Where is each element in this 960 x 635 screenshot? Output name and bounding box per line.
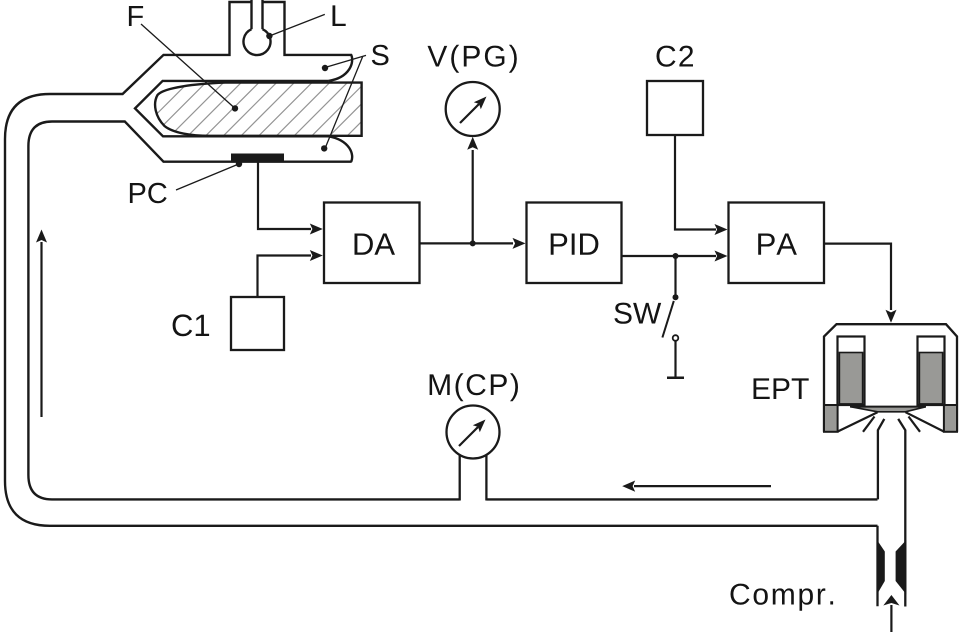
switch SW lower lead <box>674 341 676 377</box>
label F <box>129 6 143 26</box>
box C1 <box>231 297 284 350</box>
label SW <box>614 303 661 324</box>
EPT jet line left <box>863 417 875 432</box>
label L <box>333 5 346 26</box>
leader line F <box>141 24 235 108</box>
outlet pipe left wall lower segment <box>876 526 878 607</box>
label Compr. <box>731 584 834 611</box>
EPT nozzle flapper plate <box>851 407 926 412</box>
EPT left base block <box>824 405 838 432</box>
gauge V(PG) <box>446 82 500 136</box>
compressor inflow arrow <box>890 605 892 632</box>
gauge M(CP) tap stub right wall <box>485 455 487 501</box>
EPT right base block <box>944 405 957 432</box>
box PID <box>527 203 622 284</box>
label EPT <box>754 378 809 399</box>
wire PA to EPT <box>824 244 891 310</box>
label V(PG) <box>428 45 517 73</box>
outlet pipe right wall with flare <box>898 419 905 607</box>
flow arrow up in left pipe <box>40 242 42 417</box>
label PC <box>130 183 167 204</box>
lamp housing channel left wall <box>250 0 252 29</box>
label C1 <box>173 314 210 336</box>
node dot PC <box>236 161 242 167</box>
EPT funnel line right <box>906 412 944 431</box>
leader line PC <box>176 164 239 190</box>
pipe inner wall (lower arm back along top run and left side) <box>28 122 459 500</box>
wire junction to gauge V(PG) <box>472 150 474 243</box>
box PA <box>729 203 825 284</box>
leader line L <box>269 14 324 36</box>
wire pipe outer wall (loop: bottom, left side, top run into nozzle upper arm, lamp block) <box>5 2 878 526</box>
switch SW upper contact node <box>673 294 679 300</box>
node dot L <box>266 33 272 39</box>
node dot S lower <box>321 145 327 151</box>
lamp L bulb <box>243 29 270 55</box>
gauge M(CP) <box>447 406 500 459</box>
strip F outline <box>155 83 362 136</box>
wire PC to DA <box>258 162 311 230</box>
photocell PC bar <box>231 154 284 162</box>
nozzle inner wedge and channel inner walls <box>135 81 352 162</box>
node dot S upper <box>322 65 328 71</box>
leader line S upper <box>325 55 366 67</box>
switch SW terminal bar <box>667 377 684 380</box>
lamp housing channel right wall <box>261 0 263 29</box>
box C2 <box>647 81 703 135</box>
EPT left coil winding <box>839 353 862 404</box>
EPT body outline <box>824 324 957 432</box>
venturi right black wall <box>896 540 907 594</box>
wire C2 to PA <box>675 135 716 230</box>
label S <box>372 45 389 66</box>
nozzle upper duct outer wall right section with curved outlet <box>263 2 353 81</box>
leader line S lower <box>325 57 363 149</box>
EPT jet line right <box>909 417 921 432</box>
wire PID to PA <box>622 255 717 257</box>
EPT diaphragm line <box>850 406 926 408</box>
label M(CP) <box>430 373 518 401</box>
EPT right coil winding <box>919 353 942 404</box>
venturi left black wall <box>877 540 885 594</box>
pipe inner wall bottom run right of gauge tap <box>486 498 877 500</box>
switch SW lower contact <box>673 335 679 341</box>
junction node on DA-PID wire <box>470 240 476 246</box>
outlet pipe left wall upper segment with flare <box>878 419 884 500</box>
wire junction to switch SW <box>674 256 676 297</box>
box DA <box>324 203 420 284</box>
switch SW lever <box>662 301 673 338</box>
label C2 <box>657 46 694 67</box>
gauge M(CP) tap stub left wall <box>459 455 461 501</box>
flow arrow left in bottom pipe <box>634 485 771 487</box>
junction node on PID-PA wire <box>673 253 679 259</box>
strip F hatching <box>113 82 419 140</box>
wire DA to PID <box>420 242 514 244</box>
EPT left coil bobbin <box>838 337 865 406</box>
EPT right coil bobbin <box>918 337 945 406</box>
node dot F <box>232 105 238 111</box>
wire C1 to DA <box>258 256 312 298</box>
EPT funnel line left <box>838 412 878 431</box>
